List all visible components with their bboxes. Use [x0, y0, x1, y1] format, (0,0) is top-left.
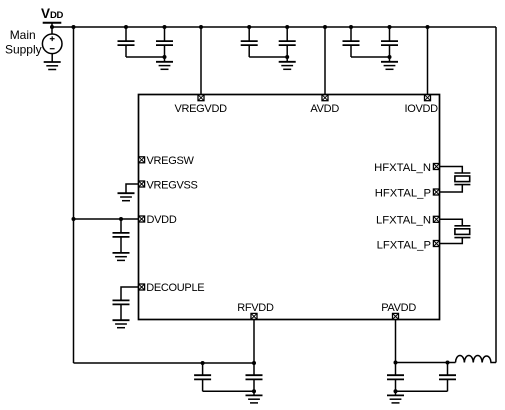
- junction C2 bottom: [163, 55, 167, 59]
- wire IOVDD pin: [427, 27, 429, 95]
- wire RFVDD pin down: [253, 320, 255, 364]
- capacitor C9 (RFVDD left): [194, 363, 211, 391]
- pin AVDD: [322, 95, 328, 101]
- svg-text:DECOUPLE: DECOUPLE: [146, 282, 204, 294]
- junction VREGVDD rail: [199, 25, 203, 29]
- wire VREGVSS to ground: [126, 184, 139, 193]
- wire right VDD rail: [495, 27, 497, 363]
- capacitor C1 (VREGVDD pair left): [118, 27, 135, 57]
- junction DVDD cap: [119, 217, 123, 221]
- pin VREGSW: [139, 157, 145, 163]
- crystal Y2 (LFXTAL): [454, 226, 470, 238]
- VDD supply terminal bar: [43, 22, 62, 24]
- wire DECOUPLE to cap: [121, 287, 139, 300]
- wire crystal to HFXTAL_P: [440, 185, 463, 192]
- voltage source Main Supply: [42, 34, 62, 54]
- inductor L1: [456, 356, 497, 363]
- capacitor C12 (PAVDD right): [439, 363, 456, 392]
- svg-text:LFXTAL_N: LFXTAL_N: [376, 214, 431, 226]
- wire AVDD pin: [324, 27, 326, 95]
- svg-text:DD: DD: [50, 10, 64, 21]
- junction IOVDD rail: [426, 25, 430, 29]
- wire VREGVDD pin: [200, 27, 202, 95]
- junction C4 bottom: [285, 55, 289, 59]
- wire LFXTAL_N to crystal: [440, 219, 463, 226]
- junction left rail top: [72, 25, 76, 29]
- svg-text:AVDD: AVDD: [310, 103, 339, 115]
- wire C9-C10 bottom: [203, 390, 254, 392]
- svg-text:VREGSW: VREGSW: [147, 155, 195, 167]
- pin IOVDD: [425, 95, 431, 101]
- junction DVDD left rail: [72, 217, 76, 221]
- pin RFVDD: [251, 313, 257, 319]
- capacitor C8 (DECOUPLE): [113, 300, 130, 320]
- junction C4 top: [285, 25, 289, 29]
- pin LFXTAL_P: [433, 241, 439, 247]
- ground (C10): [246, 391, 263, 403]
- wire top VDD rail: [52, 26, 496, 28]
- svg-text:RFVDD: RFVDD: [237, 302, 274, 314]
- wire C5-C6 bottom: [351, 56, 390, 58]
- junction VDD node: [50, 25, 54, 29]
- wire C1-C2 bottom: [126, 56, 165, 58]
- ground (VREGVSS): [118, 193, 135, 201]
- pin PAVDD: [393, 313, 399, 319]
- capacitor C3 (AVDD pair left): [241, 27, 258, 57]
- capacitor C2 (VREGVDD pair right): [156, 27, 173, 57]
- pin HFXTAL_N: [433, 164, 439, 170]
- wire crystal to LFXTAL_P: [440, 238, 463, 244]
- junction C9 top: [201, 361, 205, 365]
- wire bottom-left rail: [74, 362, 255, 364]
- junction AVDD rail: [323, 25, 327, 29]
- svg-text:Main: Main: [10, 28, 36, 42]
- label Main Supply: [5, 28, 42, 57]
- pin HFXTAL_P: [433, 189, 439, 195]
- wire left VDD rail: [73, 27, 75, 363]
- crystal Y1 (HFXTAL): [454, 173, 470, 185]
- wire source to ground: [51, 54, 53, 62]
- pin DVDD: [139, 216, 145, 222]
- junction PAVDD node: [394, 361, 398, 365]
- ground (C6): [381, 57, 398, 69]
- net label VDD: [41, 6, 64, 21]
- capacitor C5 (IOVDD pair left): [343, 27, 360, 57]
- pin DECOUPLE: [139, 284, 145, 290]
- svg-text:VREGVDD: VREGVDD: [174, 103, 227, 115]
- wire VDD terminal to source: [51, 23, 53, 35]
- capacitor C6 (IOVDD pair right): [381, 27, 398, 57]
- IC body U1: [139, 95, 440, 320]
- svg-text:PAVDD: PAVDD: [381, 302, 416, 314]
- wire PAVDD to inductor: [396, 362, 456, 364]
- ground (C8): [113, 320, 130, 328]
- pin VREGVDD: [198, 95, 204, 101]
- svg-text:IOVDD: IOVDD: [404, 103, 438, 115]
- junction RFVDD rail: [252, 361, 256, 365]
- pin LFXTAL_N: [433, 216, 439, 222]
- junction C12 top: [446, 361, 450, 365]
- svg-text:V: V: [41, 6, 50, 21]
- wire PAVDD pin down: [395, 320, 397, 363]
- pin VREGVSS: [139, 181, 145, 187]
- wire C11-C12 bottom: [396, 390, 448, 392]
- wire DVDD to left rail: [74, 218, 139, 220]
- junction C3 top: [247, 25, 251, 29]
- ground (C4): [279, 57, 296, 69]
- svg-text:Supply: Supply: [5, 43, 42, 57]
- junction C6 top: [388, 25, 392, 29]
- capacitor C10 (RFVDD right): [246, 363, 263, 391]
- ground (C11): [387, 391, 404, 403]
- svg-text:HFXTAL_N: HFXTAL_N: [374, 162, 431, 174]
- ground (main supply): [44, 62, 61, 70]
- ground (C7): [113, 253, 130, 261]
- capacitor C7 (DVDD): [113, 219, 130, 253]
- svg-text:HFXTAL_P: HFXTAL_P: [375, 187, 431, 199]
- junction C6 bottom: [388, 55, 392, 59]
- capacitor C11 (PAVDD left): [387, 363, 404, 392]
- wire C3-C4 bottom: [249, 56, 287, 58]
- junction C2 top: [163, 25, 167, 29]
- junction C1 top: [124, 25, 128, 29]
- svg-text:VREGVSS: VREGVSS: [147, 179, 198, 191]
- svg-text:LFXTAL_P: LFXTAL_P: [377, 239, 431, 251]
- capacitor C4 (AVDD pair right): [279, 27, 296, 57]
- svg-text:DVDD: DVDD: [147, 214, 177, 226]
- junction C11 bottom: [394, 389, 398, 393]
- ground (C2): [156, 57, 173, 69]
- wire HFXTAL_N to crystal: [440, 167, 463, 174]
- junction C10 bottom: [252, 389, 256, 393]
- junction C5 top: [349, 25, 353, 29]
